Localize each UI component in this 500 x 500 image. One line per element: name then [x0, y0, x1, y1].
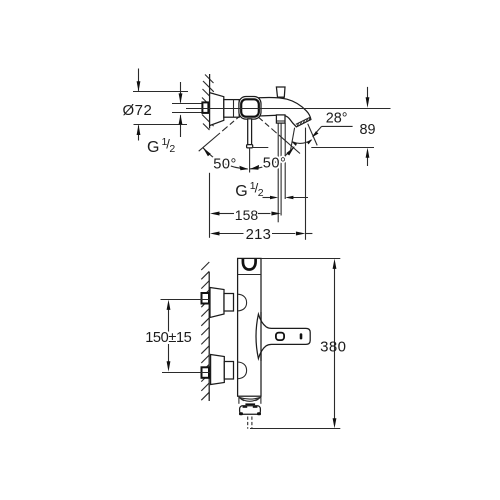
handle hole	[276, 333, 284, 341]
pipe centerline lower	[162, 372, 211, 374]
lever rod end cap	[247, 145, 253, 148]
escutcheon cone lower (bottom view)	[211, 355, 225, 385]
union nut lower	[224, 362, 233, 380]
G 1/2 left leader arrows	[179, 82, 183, 137]
svg-text:380: 380	[320, 339, 346, 356]
body seam line	[238, 274, 261, 276]
svg-text:158: 158	[235, 207, 259, 223]
aerator cup	[240, 406, 261, 414]
89 dimension	[252, 87, 374, 166]
mixer body outer (rounded square)	[239, 97, 261, 120]
lever rod	[248, 119, 252, 145]
380 dimension line with arrows	[333, 259, 337, 429]
escutcheon cone upper (bottom view)	[210, 288, 224, 318]
extension line from spout outlet	[305, 128, 307, 240]
wall hatching (bottom view)	[201, 262, 209, 400]
wall face line (bottom view)	[208, 272, 210, 401]
213 dimension	[210, 232, 312, 236]
horizontal pipe centerline through body (89 top reference)	[186, 108, 391, 110]
escutcheon cone (top view)	[210, 93, 224, 126]
svg-text:50°: 50°	[213, 157, 237, 173]
diverter knob neck	[279, 97, 284, 100]
aerator inner line and ticks	[296, 117, 310, 126]
mixer body (front)	[238, 258, 261, 396]
mixer body inner (rounded square, bold)	[241, 99, 259, 116]
wall face line (top view)	[209, 74, 211, 129]
lever centerline	[249, 148, 251, 173]
hose connection U-notch	[243, 259, 256, 270]
connector cylinder	[224, 100, 239, 118]
inlet bulge arc upper	[238, 294, 247, 311]
158 dimension	[210, 212, 281, 216]
svg-text:150±15: 150±15	[145, 330, 191, 346]
inlet bulge arc lower	[238, 362, 247, 379]
svg-text:89: 89	[360, 122, 376, 138]
union nut upper	[224, 294, 234, 312]
supply pipe behind wall	[172, 104, 203, 113]
aerator cup dark segments	[239, 406, 261, 415]
svg-text:28°: 28°	[326, 111, 348, 127]
handle slot mark	[300, 333, 303, 339]
svg-text:213: 213	[246, 227, 272, 243]
extension line from wall (158/213)	[209, 173, 211, 238]
water stream dashes	[248, 417, 252, 429]
dimension Ø72 extension lines	[133, 92, 188, 125]
handle arm with skirt flare	[256, 314, 310, 358]
shower hose nipple	[276, 115, 285, 123]
50 degree arcs with arrows	[203, 147, 294, 171]
dimension Ø72 arrows	[137, 69, 141, 141]
body right edge over arm	[260, 312, 262, 361]
50 degree swing lines (dashed rays from cartridge pivot)	[199, 109, 300, 154]
water stream lines (28 deg)	[291, 124, 318, 150]
380 dimension extension lines	[250, 259, 340, 429]
spout body	[259, 98, 311, 127]
28 degree leader	[312, 126, 353, 137]
svg-text:50°: 50°	[263, 156, 287, 172]
connector seam line	[233, 100, 235, 118]
outlet mid section	[239, 396, 261, 405]
wall hatching (top view)	[202, 75, 214, 131]
150±15 dimension arrows	[167, 300, 171, 372]
pipe centerline upper	[161, 299, 212, 301]
outlet smile lens (double arc)	[239, 397, 261, 401]
extension lines below shower nipple	[278, 123, 285, 222]
union square behind wall (upper)	[202, 293, 210, 304]
svg-text:Ø72: Ø72	[123, 102, 153, 119]
G 1/2 arrows (bottom)	[263, 196, 309, 200]
union square behind wall (lower)	[202, 367, 210, 378]
union nut behind wall (top view)	[202, 102, 208, 113]
diverter knob	[276, 87, 285, 97]
